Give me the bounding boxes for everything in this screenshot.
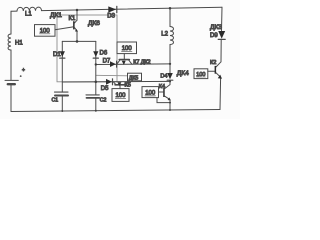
svg-text:ДК1: ДК1 [50, 12, 62, 19]
inductor L1 [17, 7, 42, 11]
node B-left [95, 81, 98, 84]
control box 100 (DK4 driver) [142, 87, 159, 98]
node top K1 junction [76, 9, 79, 12]
diode D9 [218, 31, 225, 39]
svg-text:К4: К4 [159, 84, 165, 90]
wire sense line to DK5 [96, 74, 128, 77]
wire K1 base [55, 27, 73, 30]
control box 100 (DK1) [35, 25, 56, 37]
svg-text:К7 ДК2: К7 ДК2 [133, 60, 150, 66]
node bottom K4 junction [169, 109, 171, 111]
svg-text:ДК4: ДК4 [177, 70, 189, 77]
block outline DK6 [57, 15, 117, 82]
svg-text:D7: D7 [103, 58, 111, 64]
wire K4 base [159, 91, 164, 93]
svg-text:L2: L2 [161, 31, 168, 37]
svg-text:ДК3: ДК3 [210, 24, 222, 31]
svg-text:+: + [22, 67, 25, 73]
svg-text:К1: К1 [69, 16, 76, 22]
wire K5 base [119, 85, 121, 89]
wire mid bus A [96, 63, 170, 66]
node A-left [95, 63, 97, 65]
node bottom C1 junction [61, 110, 63, 112]
inductor L2 [170, 27, 173, 45]
svg-text:К2: К2 [210, 60, 216, 66]
diode D4 [167, 73, 173, 79]
capacitor C1 [55, 91, 69, 93]
node bottom C2 junction [95, 110, 97, 112]
wire K1 emitter to bridge [76, 32, 78, 42]
svg-text:L1: L1 [25, 11, 32, 17]
control box 100 (DK2) [117, 42, 137, 54]
transistor K1 [75, 20, 77, 23]
wire bottom bus [11, 110, 220, 112]
wire driver return [157, 98, 170, 103]
wire top bus [11, 7, 222, 11]
diode D3 [108, 6, 116, 12]
transistor K2 [216, 62, 221, 67]
svg-text:С2: С2 [100, 97, 107, 103]
node top L2 junction [169, 7, 172, 10]
wire right vertical [220, 7, 222, 109]
capacitor C2 [86, 94, 99, 96]
svg-text:С1: С1 [52, 98, 59, 104]
svg-text:ДК5: ДК5 [129, 76, 139, 82]
svg-text:D6: D6 [100, 51, 108, 57]
wire K7 base [123, 54, 125, 60]
wire node A to D4 [169, 64, 171, 73]
svg-text:D1: D1 [53, 52, 61, 58]
transistor K5 [115, 84, 125, 86]
wire K2 base [208, 70, 215, 72]
node A-right junction [169, 63, 171, 65]
wire mid bus B [62, 80, 170, 83]
svg-text:D9: D9 [210, 33, 218, 39]
wire K4 emitter down [169, 100, 171, 110]
node emitter return junction [169, 102, 171, 104]
transistor K7 [119, 59, 129, 61]
transistor K4 [165, 85, 170, 89]
svg-text:D3: D3 [107, 14, 115, 20]
node battery dot [20, 75, 22, 77]
wire L2 drop [169, 8, 171, 64]
wire D4 to K4 [169, 80, 171, 84]
svg-text:H1: H1 [15, 41, 23, 47]
svg-text:К5: К5 [125, 83, 131, 89]
block label DK5 [128, 73, 142, 81]
svg-text:D4: D4 [160, 73, 167, 79]
node B-right junction [169, 80, 171, 82]
diode D5 [106, 79, 112, 85]
diode D7 [110, 61, 116, 67]
wire bridge left leg [61, 41, 63, 111]
wire bridge top [62, 40, 96, 42]
battery E [5, 79, 18, 81]
wire bridge right leg [95, 41, 97, 110]
svg-text:ДК6: ДК6 [88, 20, 100, 27]
control box 100 (DK5 driver) [112, 89, 129, 102]
wire K1 collector drop [76, 10, 78, 20]
svg-text:D5: D5 [101, 86, 109, 92]
control box 100 (DK3 driver) [194, 69, 208, 79]
diode D6 [93, 51, 98, 57]
wire left vertical [10, 11, 12, 111]
node bridge top junction [76, 40, 79, 43]
inductor H1 [8, 34, 11, 50]
diode D1 [60, 51, 65, 57]
